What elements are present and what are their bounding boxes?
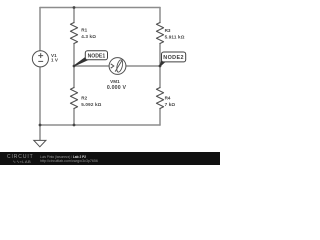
wire ground stem [39, 125, 41, 140]
resistor R3 [156, 23, 163, 44]
svg-text:0.000 V: 0.000 V [107, 85, 127, 91]
wire bottom horizontal [40, 124, 160, 126]
svg-text:4.3 kΩ: 4.3 kΩ [81, 34, 96, 39]
svg-text:5.092 kΩ: 5.092 kΩ [81, 102, 101, 107]
label R2 value [81, 95, 101, 107]
label VM1 value [107, 79, 127, 91]
label R4 value [165, 95, 176, 107]
resistor R4 [156, 88, 163, 109]
node NODE1 flag [74, 51, 108, 66]
junction node B (NODE2 tap) [159, 65, 162, 68]
footer text line 1 [40, 155, 86, 159]
junction bottom left [39, 124, 42, 127]
CircuitLab logo [7, 154, 34, 160]
svg-text:R2: R2 [81, 95, 87, 100]
wire left vertical upper [39, 8, 41, 51]
resistor R1 [70, 23, 77, 44]
voltmeter VM1 [109, 58, 126, 75]
ground [34, 140, 46, 146]
wire R3 top lead [159, 8, 161, 23]
wire R3-R4 middle lead [159, 44, 161, 88]
svg-text:7 kΩ: 7 kΩ [165, 102, 176, 107]
svg-text:5.911 kΩ: 5.911 kΩ [165, 35, 185, 40]
svg-text:R1: R1 [81, 28, 87, 33]
junction top R1 column [73, 6, 76, 9]
footer bar [0, 152, 220, 165]
label R3 value [165, 28, 185, 40]
svg-text:VM1: VM1 [110, 79, 120, 84]
svg-text:R3: R3 [165, 28, 171, 33]
wire bridge right [126, 65, 160, 67]
wire top horizontal [40, 7, 160, 9]
svg-text:R4: R4 [165, 95, 171, 100]
junction bottom R2 column [73, 124, 76, 127]
wire R2 bottom lead [73, 109, 75, 126]
wire R1 top lead [73, 8, 75, 23]
label R1 value [81, 28, 96, 40]
wire R1-R2 middle lead [73, 44, 75, 88]
footer text line 2 [40, 159, 98, 163]
wire R4 bottom lead [159, 109, 161, 126]
junction node A (NODE1 tap) [73, 65, 76, 68]
svg-text:NODE2: NODE2 [163, 55, 184, 61]
label V1 value [51, 53, 59, 62]
wire bridge left [74, 65, 109, 67]
node NODE2 flag [160, 52, 186, 66]
svg-text:1 V: 1 V [51, 58, 59, 63]
svg-text:NODE1: NODE1 [88, 53, 106, 59]
resistor R2 [70, 88, 77, 109]
voltage source V1 [32, 51, 48, 67]
wire left vertical lower [39, 67, 41, 125]
